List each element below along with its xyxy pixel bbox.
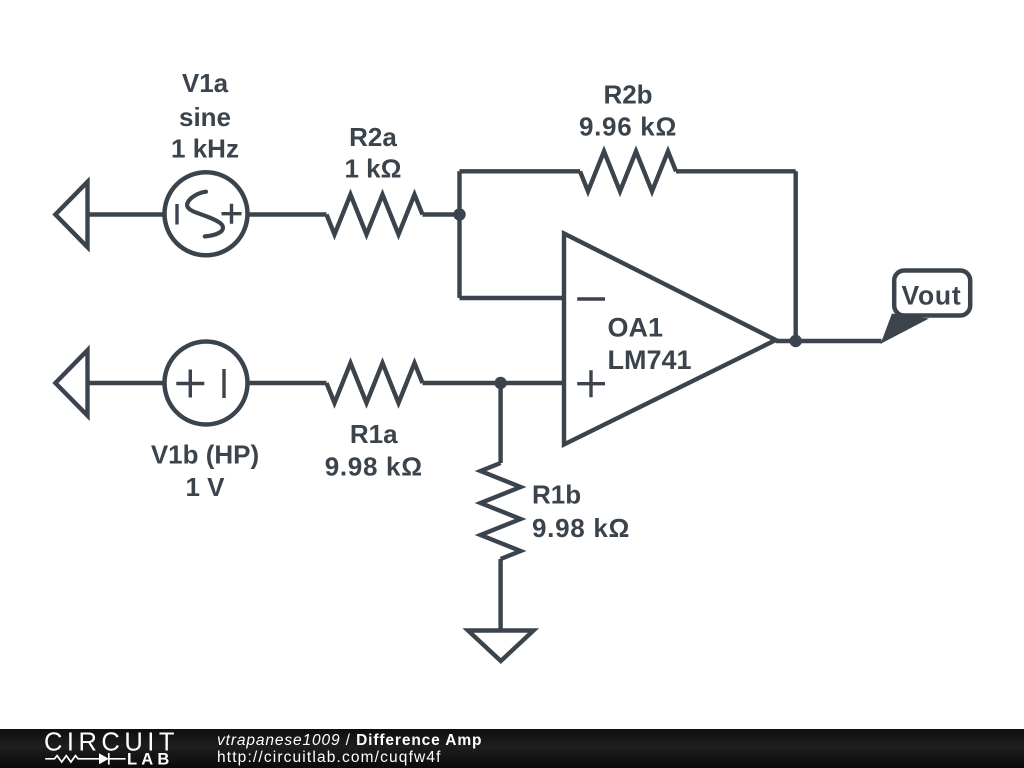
V1b terminal bar (222, 369, 225, 398)
ground symbol (468, 631, 534, 662)
resistor R2b (580, 151, 676, 191)
wire to op-amp inverting input (460, 296, 565, 300)
wire V1a to R2a (248, 212, 327, 216)
wire arrowA to V1a (88, 212, 167, 216)
V1a sine squiggle (187, 192, 223, 237)
V1a plus sign (222, 204, 242, 224)
svg-text:Vout: Vout (901, 281, 961, 311)
net flag Vout tail (881, 314, 930, 345)
wire node A down (457, 215, 461, 299)
CircuitLab logo: resistor-diode squiggle (45, 753, 125, 765)
svg-text:LM741: LM741 (608, 345, 692, 375)
CircuitLab logo: diode triangle (99, 753, 109, 764)
node A junction dot (453, 208, 465, 220)
svg-text:1 V: 1 V (185, 472, 225, 502)
svg-text:http://circuitlab.com/cuqfw4f: http://circuitlab.com/cuqfw4f (217, 749, 442, 766)
wire R1b to ground (498, 559, 502, 629)
terminal arrow input A (55, 182, 87, 247)
resistor R1b vertical (481, 463, 521, 559)
svg-text:R2b: R2b (603, 80, 652, 110)
voltage source V1a (sine) (165, 172, 248, 255)
terminal arrow input B (55, 350, 87, 415)
op-amp minus symbol (577, 297, 605, 300)
wire V1b to R1a (248, 381, 327, 385)
feedback wire down to output (794, 171, 798, 341)
svg-text:9.96 kΩ: 9.96 kΩ (579, 112, 677, 142)
wire R1a to op-amp + input (423, 381, 565, 385)
svg-text:R2a: R2a (349, 122, 397, 152)
svg-text:9.98 kΩ: 9.98 kΩ (532, 513, 630, 543)
op-amp OA1 triangle (564, 234, 776, 445)
svg-text:V1a: V1a (182, 68, 229, 98)
svg-text:LAB: LAB (127, 751, 174, 768)
svg-text:V1b (HP): V1b (HP) (151, 440, 259, 470)
V1a minus terminal bar (175, 204, 178, 225)
wire node A up to feedback (457, 171, 461, 214)
svg-text:vtrapanese1009 / Difference Am: vtrapanese1009 / Difference Amp (217, 732, 482, 749)
feedback wire left (460, 169, 581, 173)
wire arrowB to V1b (88, 381, 167, 385)
wire R2a to node A (423, 212, 460, 216)
footer bar (0, 729, 1024, 768)
svg-text:R1a: R1a (350, 419, 398, 449)
resistor R1a (327, 363, 423, 403)
svg-text:9.98 kΩ: 9.98 kΩ (325, 452, 423, 482)
node B junction dot (494, 377, 506, 389)
svg-text:sine: sine (179, 102, 231, 132)
resistor R2a (327, 195, 423, 235)
svg-text:1 kΩ: 1 kΩ (345, 154, 402, 184)
op-amp plus symbol (577, 370, 605, 397)
feedback wire right (676, 169, 796, 173)
svg-text:R1b: R1b (532, 480, 581, 510)
wire node B down to R1b (498, 383, 502, 463)
svg-text:OA1: OA1 (608, 313, 664, 343)
svg-text:1 kHz: 1 kHz (171, 134, 239, 164)
voltage source V1b (165, 342, 248, 425)
net flag Vout box (894, 271, 970, 316)
V1b plus sign (176, 370, 204, 398)
output node junction dot (790, 335, 802, 347)
output wire (776, 339, 882, 343)
